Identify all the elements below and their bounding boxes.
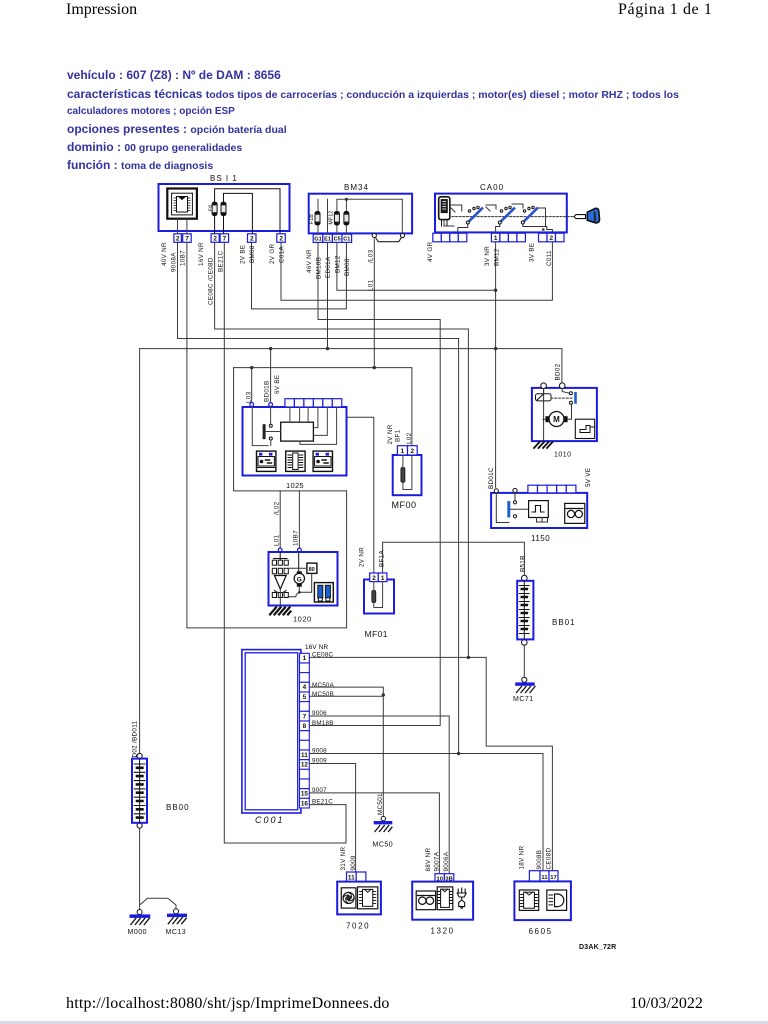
1020 box [269, 552, 338, 606]
wire MF01 pin1 to BB01 [383, 542, 525, 575]
1025 terminals [250, 403, 254, 407]
footer url [66, 995, 390, 1013]
svg-text:MF00: MF00 [392, 500, 417, 510]
BB01 terminals [522, 575, 528, 581]
svg-text:6V BE: 6V BE [274, 375, 281, 394]
svg-text:MF01: MF01 [365, 629, 388, 639]
svg-text:BM12: BM12 [494, 248, 501, 266]
svg-text:F8: F8 [207, 205, 213, 211]
svg-text:18V NR: 18V NR [519, 845, 526, 869]
svg-text:1: 1 [303, 655, 307, 662]
1010 ground hatch [534, 442, 553, 448]
svg-text:2: 2 [250, 236, 254, 243]
1010 motor [549, 412, 564, 427]
CA00 switch 1 [466, 206, 482, 224]
svg-text:/L03: /L03 [367, 249, 374, 263]
info line 1 [67, 68, 281, 82]
1320 IC icon [437, 887, 453, 910]
BS11 pin boxes [174, 234, 285, 243]
1025 battery icon 2 [313, 451, 332, 471]
C001 outer box [242, 650, 301, 813]
CA00 wire labels [427, 241, 553, 266]
info line 5 [67, 140, 242, 154]
svg-text:6605: 6605 [529, 927, 553, 936]
wire BM18B: BM34 G1 to C001 pin8 [310, 242, 441, 725]
BM34 trapezoid connector [372, 233, 404, 241]
C001 pin boxes [300, 653, 310, 808]
svg-text:C5: C5 [334, 237, 341, 243]
info line 3 [67, 106, 235, 117]
1010 terminals [541, 383, 547, 389]
CA00 internal wires [444, 204, 552, 233]
wire CE08C: BS11 to C001 pin1 line [215, 242, 469, 657]
svg-text:C001: C001 [255, 815, 285, 825]
MF01 labels [359, 547, 386, 567]
BM34 fuse F1B [315, 212, 320, 226]
wire BM08: BS11 to BM34 C1 [252, 242, 347, 309]
wire MF01 pin2 feed from 1025 [331, 417, 374, 573]
6605 pin boxes [529, 871, 540, 882]
svg-text:CE08D: CE08D [546, 848, 553, 870]
svg-text:MC50: MC50 [373, 842, 394, 849]
svg-text:1320: 1320 [431, 927, 455, 936]
svg-text:1: 1 [401, 448, 405, 455]
1025 connector icon [286, 451, 305, 471]
bus C L03: to MF00 pin2 [234, 368, 412, 446]
svg-text:8: 8 [303, 723, 307, 730]
svg-text:80: 80 [309, 567, 315, 573]
svg-text:MC50B: MC50B [312, 691, 334, 698]
svg-text:/L02: /L02 [274, 501, 281, 515]
C001 pin numbers [301, 655, 309, 807]
wire L03 to 1025 [251, 368, 253, 403]
1150 internals [507, 501, 510, 517]
svg-text:BE21C: BE21C [312, 799, 333, 806]
footer date [630, 995, 703, 1013]
MF01 pin boxes [370, 573, 379, 582]
BS11 wire labels rotated [161, 242, 286, 305]
svg-text:B51B: B51B [520, 555, 527, 572]
wire ED01A: BM34 E1 to bus B [327, 242, 329, 348]
wire C01A: BS11 to CA00 pin2 [281, 242, 552, 300]
svg-text:L02: L02 [406, 432, 413, 444]
svg-text:ED01A: ED01A [325, 256, 332, 278]
svg-text:1: 1 [381, 575, 385, 582]
svg-text:11: 11 [541, 875, 548, 881]
BM34 fuses MF12 MF15 [334, 212, 349, 226]
1020 alternator internals [272, 552, 298, 598]
svg-text:7020: 7020 [346, 922, 370, 931]
wire BE21C: BS11 to C001 pin16 [224, 242, 346, 843]
svg-text:MC71: MC71 [513, 696, 534, 703]
1320 wire labels [425, 847, 450, 871]
svg-text:16V NR: 16V NR [305, 644, 329, 651]
1150 top connector boxes [528, 485, 576, 493]
BB01 box [517, 581, 533, 640]
CA00 box [435, 194, 567, 233]
1010 icon box [575, 419, 594, 438]
svg-text:11: 11 [348, 875, 355, 882]
1010 solenoid contacts [574, 392, 577, 404]
svg-text:2V GR: 2V GR [269, 243, 276, 264]
1010 box [532, 388, 597, 441]
svg-text:10B7: 10B7 [180, 250, 187, 266]
info line 4 [67, 122, 287, 136]
svg-text:2: 2 [279, 236, 283, 243]
svg-text:BD01B: BD01B [264, 381, 271, 402]
BB00 box [132, 759, 147, 823]
svg-text:88V NR: 88V NR [425, 847, 432, 871]
1025 internal relay [281, 422, 314, 441]
1320 pin boxes [435, 874, 444, 882]
L01 10B7 labels [274, 501, 300, 546]
wire 9009: C001 pin12 to 7020 [310, 764, 356, 873]
MF00 internal fuse [403, 455, 412, 490]
1320 plug icon [457, 888, 466, 909]
1320 glasses icon [416, 891, 435, 910]
wire 9008: C001 pin11 to 6605 [310, 754, 543, 871]
BM34 box [309, 194, 412, 234]
BB00 terminals [137, 753, 142, 758]
info line 6 [67, 158, 213, 172]
svg-text:L03: L03 [246, 391, 253, 403]
BS11 fuse F21 [215, 193, 253, 233]
svg-text:3V NR: 3V NR [484, 246, 491, 266]
wire MC50B pin5 and MC501 to ground [310, 696, 384, 816]
svg-text:G1: G1 [314, 237, 321, 243]
MF01 internal fuse [374, 582, 383, 608]
svg-text:9006A: 9006A [443, 851, 450, 871]
svg-text:D3AK_72R: D3AK_72R [579, 944, 616, 951]
C001 inner box [245, 653, 298, 810]
BS11 fuse F8 [212, 189, 280, 234]
1320 box [412, 882, 473, 920]
svg-text:MC13: MC13 [166, 929, 187, 936]
svg-text:9007: 9007 [312, 787, 327, 794]
1025 internal wires [252, 406, 336, 445]
svg-text:2: 2 [372, 575, 376, 582]
1025 battery icon 1 [257, 451, 276, 471]
1010 dashed link [551, 397, 572, 399]
svg-text:11: 11 [301, 752, 308, 759]
svg-text:2V NR: 2V NR [359, 547, 366, 567]
svg-text:17: 17 [550, 875, 556, 881]
svg-text:G: G [297, 576, 302, 583]
svg-text:10B7: 10B7 [293, 530, 300, 546]
CA00 dashed key line [452, 216, 574, 218]
wires layer [140, 239, 562, 910]
7020 pin boxes [347, 872, 357, 882]
svg-text:CA00: CA00 [480, 183, 504, 192]
bus B BD02: BB00 to 1010 [140, 349, 562, 754]
svg-text:1150: 1150 [531, 534, 550, 543]
7020 IC icon [358, 887, 378, 909]
1025 box [243, 407, 347, 476]
svg-text:BD01C: BD01C [488, 467, 495, 489]
BS11 icon wires to pins [178, 219, 187, 234]
1150 box [491, 493, 587, 528]
svg-text:BB01: BB01 [552, 618, 576, 627]
BS11 connector icon [167, 189, 197, 219]
7020 speaker icon [341, 888, 356, 908]
svg-text:1020: 1020 [293, 615, 312, 624]
BB00 cells [134, 759, 145, 823]
1020 connector icon blue pins [314, 583, 333, 602]
svg-text:4V GR: 4V GR [427, 241, 434, 262]
svg-text:2V BE: 2V BE [240, 245, 247, 264]
svg-text:2: 2 [411, 448, 415, 455]
CA00 switch 2 [498, 206, 514, 224]
wire CE08C/CE08D: C001 pin1 to 6605 [310, 657, 553, 870]
wire MC50A pin4 [310, 687, 384, 695]
svg-text:BD02: BD02 [555, 363, 562, 380]
1020 ground [279, 589, 281, 606]
svg-text:9009: 9009 [312, 758, 327, 765]
svg-text:1025: 1025 [286, 481, 304, 490]
header right [618, 1, 712, 19]
MF00 pin boxes [397, 446, 407, 455]
wire L01 /L03: BM34 trapezoid to bus C [373, 239, 375, 368]
wire L01 /L02: 1020 terminals up [280, 491, 299, 549]
1020 little box 80 [307, 563, 317, 573]
svg-text:9008B: 9008B [536, 850, 543, 870]
BM34 internal wiring [318, 199, 402, 234]
svg-text:MC501: MC501 [377, 793, 384, 815]
svg-text:15: 15 [301, 791, 309, 798]
MF00 labels [387, 424, 413, 444]
7020 wire labels [340, 846, 357, 870]
svg-text:5: 5 [303, 694, 307, 701]
svg-text:C1: C1 [343, 237, 350, 243]
wire BB01 to MC71 [523, 645, 525, 677]
junction dots [250, 289, 497, 756]
info line 2 [67, 87, 679, 101]
C001 wire name labels [312, 652, 335, 806]
svg-text:7: 7 [223, 236, 227, 243]
svg-text:1010: 1010 [554, 452, 572, 459]
svg-text:F1B: F1B [309, 214, 315, 224]
svg-text:16: 16 [301, 800, 309, 807]
BS11 box [159, 184, 290, 231]
1010 relay [536, 389, 552, 401]
svg-text:BF1: BF1 [394, 429, 401, 442]
svg-text:46V NR: 46V NR [306, 249, 313, 273]
svg-text:16V NR: 16V NR [198, 242, 205, 266]
svg-text:2: 2 [550, 235, 554, 242]
BB01 cells [520, 581, 530, 639]
wire 9007: C001 pin15 to 1320 [310, 793, 440, 874]
6605 box [514, 881, 571, 920]
svg-text:31V NR: 31V NR [340, 846, 347, 870]
CA00 connector icon [439, 197, 450, 226]
6605 headlamp icon [547, 890, 567, 910]
svg-text:BE21C: BE21C [217, 250, 224, 272]
svg-text:4: 4 [303, 684, 307, 691]
svg-text:MC50A: MC50A [312, 682, 335, 689]
wire 9008A: BS11 pin2 to 9008 line [178, 242, 459, 753]
1150 pulse box [529, 501, 549, 518]
1150 glasses icon [565, 503, 585, 523]
svg-text:5V VE: 5V VE [585, 468, 592, 487]
svg-text:BB00: BB00 [166, 803, 190, 812]
svg-text:9008: 9008 [312, 748, 327, 755]
svg-text:C01A: C01A [279, 246, 286, 263]
1020 terminals [278, 548, 282, 552]
1025 switch [263, 424, 266, 439]
svg-text:BM18B: BM18B [312, 720, 334, 727]
svg-text:L01: L01 [274, 534, 281, 546]
CA00 pin boxes [433, 233, 564, 242]
svg-text:7: 7 [303, 713, 307, 720]
svg-text:1: 1 [494, 235, 498, 242]
svg-text:BM08: BM08 [249, 245, 256, 263]
svg-text:M000: M000 [128, 929, 148, 936]
header left [66, 1, 137, 19]
6605 IC icon [519, 890, 538, 910]
wire BM12: CA00 to BM34 C5 and 1150 [337, 242, 496, 488]
MF00 box [393, 455, 422, 495]
wire BB00 to M000/MC13 [140, 828, 176, 909]
svg-text:3V BE: 3V BE [529, 243, 536, 262]
svg-text:9009: 9009 [350, 855, 357, 870]
svg-text:E1: E1 [324, 237, 331, 243]
1150 terminals [494, 489, 498, 493]
wire 10B7/CE08C drop to C001 pin1 [187, 242, 347, 628]
svg-text:M: M [553, 415, 560, 424]
svg-text:2: 2 [176, 236, 180, 243]
1025 top connector boxes [285, 399, 342, 407]
svg-text:BM34: BM34 [344, 183, 369, 192]
BM34 pin boxes G1 E1 C5 C1 [313, 234, 351, 242]
svg-text:BF1A: BF1A [379, 550, 386, 567]
svg-text:CE08C /CE08D: CE08C /CE08D [208, 257, 215, 305]
svg-text:2V NR: 2V NR [387, 424, 394, 444]
6605 wire labels [519, 845, 553, 869]
MF01 box [364, 580, 394, 614]
svg-text:2: 2 [213, 236, 217, 243]
svg-text:7: 7 [185, 236, 189, 243]
7020 box [337, 882, 381, 915]
svg-text:BM12: BM12 [335, 255, 342, 273]
svg-text:MF12: MF12 [329, 211, 335, 225]
1020 internal wires to junction [288, 573, 311, 596]
svg-text:9006: 9006 [312, 710, 327, 717]
CA00 switch 3 [521, 206, 537, 224]
1025 labels above [246, 375, 282, 403]
svg-text:BS I 1: BS I 1 [210, 174, 238, 183]
wire BD01B to 1025 [270, 349, 272, 403]
wire 9006: C001 pin7 to 1320 [310, 716, 450, 874]
svg-text:BM18B: BM18B [316, 257, 323, 279]
svg-text:C011: C011 [546, 250, 553, 266]
svg-text:BM08: BM08 [344, 258, 351, 276]
svg-text:9007A: 9007A [434, 851, 441, 871]
svg-text:40V NR: 40V NR [161, 242, 168, 266]
svg-text:9008A: 9008A [171, 252, 178, 272]
BM34 wire labels [306, 249, 374, 291]
CA00 key icon [574, 208, 600, 223]
svg-text:12: 12 [301, 762, 309, 769]
svg-text:L01: L01 [367, 279, 374, 291]
1020 G generator [294, 573, 304, 583]
svg-text:CE08C: CE08C [312, 652, 334, 659]
